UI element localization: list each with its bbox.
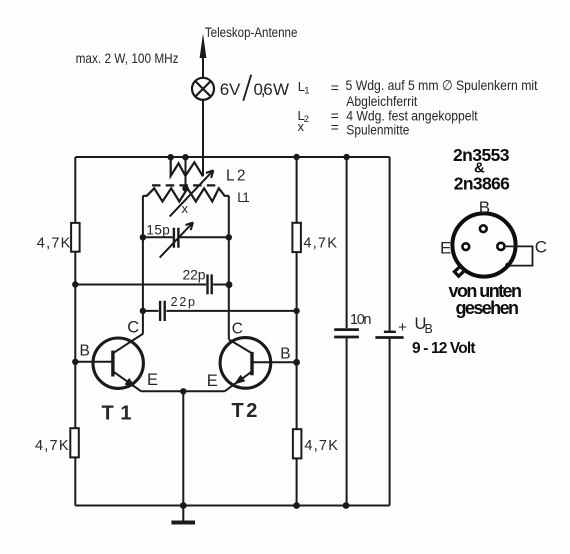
node emitter junction bbox=[180, 388, 186, 394]
wire battery column bbox=[389, 157, 391, 506]
svg-text:=: = bbox=[331, 79, 339, 95]
svg-text:15p: 15p bbox=[146, 223, 169, 238]
pin C bbox=[497, 243, 504, 250]
wire 22p upper row bbox=[75, 284, 229, 286]
transistor T2 bbox=[220, 338, 271, 392]
svg-text:Teleskop-Antenne: Teleskop-Antenne bbox=[205, 24, 298, 40]
node 15p left bbox=[140, 234, 146, 240]
capacitor C4 10n bbox=[334, 330, 359, 337]
resistor R3 4,7K lower left bbox=[35, 428, 79, 457]
node 22p upper right bbox=[226, 281, 233, 288]
svg-text:x: x bbox=[298, 119, 305, 134]
wire 10n column bbox=[346, 157, 348, 506]
svg-text:0,6 W: 0,6 W bbox=[254, 80, 290, 99]
resistor R2 4,7K upper right bbox=[292, 223, 337, 252]
node right rail on top rail bbox=[293, 154, 299, 160]
svg-text:5 Wdg. auf 5 mm ∅ Spulenkern m: 5 Wdg. auf 5 mm ∅ Spulenkern mit bbox=[346, 77, 538, 93]
svg-text:22p: 22p bbox=[171, 295, 195, 309]
svg-text:L 2: L 2 bbox=[226, 168, 246, 185]
svg-text:4,7K: 4,7K bbox=[304, 438, 338, 454]
capacitor C3 22p lower bbox=[160, 301, 165, 321]
svg-text:gesehen: gesehen bbox=[456, 298, 520, 318]
svg-text:9 - 12 Volt: 9 - 12 Volt bbox=[412, 340, 476, 357]
pin E bbox=[462, 243, 469, 250]
adjustable core arrow through L1/L2 bbox=[170, 170, 214, 216]
node 22p lower left bbox=[140, 308, 146, 314]
svg-text:4,7K: 4,7K bbox=[303, 235, 337, 251]
node 10n on top rail bbox=[343, 154, 349, 160]
node 10n on bottom rail bbox=[343, 502, 350, 509]
node ground on bottom rail bbox=[180, 502, 187, 509]
wire right rail bbox=[296, 157, 298, 506]
svg-text:+: + bbox=[398, 319, 407, 336]
wire T1 base lead bbox=[75, 361, 113, 363]
svg-text:1: 1 bbox=[304, 86, 309, 97]
svg-text:6 V: 6 V bbox=[220, 80, 241, 99]
node 22p lower right bbox=[293, 308, 299, 314]
battery UB bbox=[384, 331, 396, 333]
wire L1 left loop (T1 collector) bbox=[142, 196, 144, 334]
node T2 base bbox=[293, 359, 300, 366]
wire bottom ground rail bbox=[75, 505, 389, 507]
svg-text:B: B bbox=[479, 198, 490, 217]
svg-text:E: E bbox=[440, 238, 451, 257]
capacitor C2 22p upper bbox=[208, 274, 212, 294]
node 22p upper left bbox=[72, 281, 78, 287]
svg-text:max. 2 W, 100 MHz: max. 2 W, 100 MHz bbox=[76, 50, 179, 66]
svg-text:E: E bbox=[147, 371, 158, 389]
svg-text:10n: 10n bbox=[350, 312, 372, 328]
svg-text:T: T bbox=[102, 402, 114, 424]
svg-text:B: B bbox=[280, 346, 290, 363]
wire antenna lead bbox=[202, 57, 204, 177]
ground symbol bbox=[171, 506, 195, 523]
svg-text:22p: 22p bbox=[183, 267, 206, 283]
svg-text:=: = bbox=[331, 119, 339, 135]
svg-text:E: E bbox=[207, 372, 218, 390]
node center tap on rail bbox=[182, 154, 188, 160]
svg-text:2: 2 bbox=[246, 400, 257, 422]
node L2 left on rail bbox=[168, 154, 174, 160]
coil L1 bbox=[143, 188, 229, 201]
pin B bbox=[480, 225, 487, 232]
transistor T1 bbox=[93, 334, 143, 392]
wire emitter to ground rail bbox=[182, 391, 184, 505]
svg-text:L1: L1 bbox=[237, 190, 250, 205]
lamp La1 6V/0,6W bbox=[192, 78, 214, 100]
svg-text:C: C bbox=[535, 237, 547, 256]
wire emitter bus bbox=[141, 390, 224, 392]
label 6 V / 0,6 W bbox=[220, 75, 289, 101]
transistor package TO-39 bottom view bbox=[452, 213, 532, 276]
legend line L1 bbox=[298, 77, 538, 97]
wire left rail bbox=[74, 157, 76, 506]
svg-text:x: x bbox=[182, 201, 189, 216]
node T1 base bbox=[72, 359, 78, 365]
wire 22p lower row bbox=[143, 310, 297, 312]
svg-text:B: B bbox=[425, 322, 433, 336]
wire L1 center tap bbox=[185, 157, 187, 189]
wire 15p row bbox=[143, 236, 229, 238]
coil L2 bbox=[171, 158, 203, 177]
antenna arrowhead bbox=[200, 34, 207, 59]
svg-text:C: C bbox=[127, 318, 139, 336]
wire L1 right loop (T2 collector) bbox=[228, 196, 230, 340]
svg-text:1: 1 bbox=[120, 402, 131, 424]
legend line x bbox=[298, 119, 410, 138]
ferrite core dashed line bbox=[152, 184, 218, 186]
node 15p right bbox=[226, 234, 232, 240]
resistor R1 4,7K upper left bbox=[37, 223, 80, 252]
svg-text:T: T bbox=[232, 400, 244, 422]
svg-text:4,7K: 4,7K bbox=[37, 236, 71, 252]
svg-text:B: B bbox=[80, 343, 90, 360]
svg-text:Abgleichferrit: Abgleichferrit bbox=[346, 93, 417, 109]
node center tap x bbox=[182, 185, 188, 191]
wire T2 base lead bbox=[252, 361, 297, 363]
legend line L2 bbox=[298, 107, 478, 125]
svg-text:4,7K: 4,7K bbox=[35, 438, 69, 454]
svg-text:Spulenmitte: Spulenmitte bbox=[346, 122, 409, 138]
wire top supply rail bbox=[75, 156, 389, 158]
package key tab bbox=[454, 266, 464, 276]
svg-text:2: 2 bbox=[304, 114, 309, 125]
node right rail on bottom rail bbox=[293, 502, 300, 509]
svg-text:2n3866: 2n3866 bbox=[454, 174, 510, 194]
resistor R4 4,7K lower right bbox=[293, 429, 338, 458]
capacitor C1 15p trimmer bbox=[160, 222, 193, 257]
svg-text:C: C bbox=[232, 320, 243, 337]
tab box to C bbox=[505, 246, 533, 265]
